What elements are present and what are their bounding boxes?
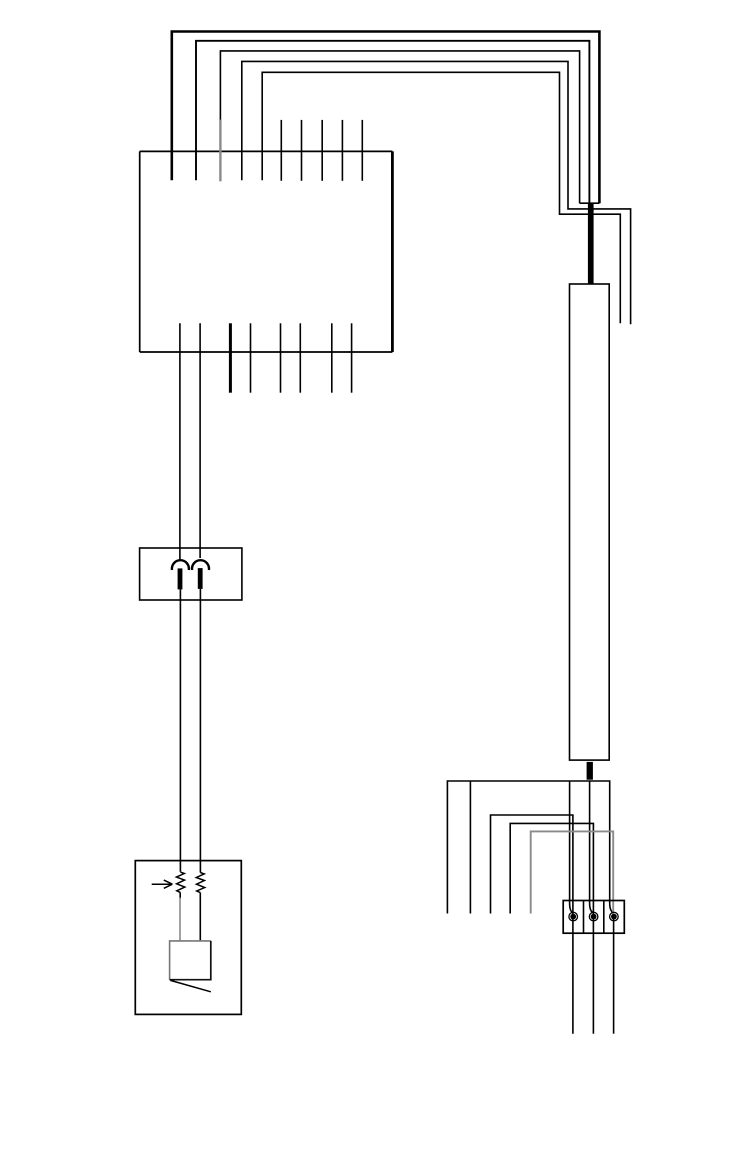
- terminal block divider 1: [583, 901, 585, 934]
- branch wire to terminal 2: [590, 781, 594, 913]
- terminal block T1 housing: [563, 901, 624, 934]
- wire W1 (pin1 to antenna, outermost): [172, 32, 600, 204]
- connector C1 socket arc pin 1: [172, 560, 189, 570]
- ring terminal 1: [569, 912, 578, 921]
- bottom pin 5: [280, 323, 282, 392]
- wire from C1 pin2 to sender unit: [199, 589, 201, 873]
- pin 8: [321, 120, 323, 181]
- control unit A1 (top-left box): [140, 151, 393, 352]
- antenna unit (tall rectangle): [570, 284, 610, 760]
- branch wire to terminal 1: [570, 781, 574, 913]
- wire below terminal 3: [613, 917, 615, 1034]
- bottom pin 7: [331, 323, 333, 392]
- wire R1 to float body (black stub): [179, 893, 181, 899]
- wire W3 gray segment at pin 3: [219, 120, 221, 182]
- wire L2 (bottom pin2 down to connector C1): [199, 323, 201, 558]
- wire from C1 pin1 to sender unit: [179, 589, 181, 871]
- variable resistor R1 zigzag: [176, 872, 184, 893]
- pin 7: [301, 120, 303, 181]
- harness wire H3 gray with stub: [531, 831, 614, 916]
- wire R1 to float body (gray): [179, 898, 181, 941]
- wire W5: [262, 72, 620, 323]
- sender unit B1 (bottom-left box): [135, 861, 241, 1015]
- splice bar (lower thick sleeve): [587, 762, 593, 780]
- wire R2 to float body: [199, 893, 201, 941]
- bottom pin 3 (thick stub): [229, 323, 232, 392]
- float body: [170, 941, 211, 980]
- harness trunk wire H0: [447, 781, 614, 914]
- bottom pin 6: [299, 323, 301, 392]
- ring terminal 3: [610, 912, 619, 921]
- bottom pin 8: [351, 323, 353, 392]
- resistor R2 zigzag: [196, 873, 204, 893]
- pin 9: [341, 120, 343, 181]
- pin 6 (top row unconnected): [280, 120, 282, 181]
- R1 adjustment arrow: [152, 883, 171, 885]
- bottom pin 4: [250, 323, 252, 392]
- splice bar (upper thick sleeve): [580, 202, 600, 204]
- harness wire H2 with stub: [510, 823, 593, 1033]
- terminal block divider 2: [603, 901, 605, 934]
- float arm lever: [170, 980, 210, 991]
- stub wire at 470: [469, 781, 471, 914]
- wire W4: [242, 61, 631, 324]
- connector C1 socket arc pin 2: [192, 560, 209, 570]
- connector C1 male pin 2: [198, 568, 203, 589]
- wire W2: [196, 41, 589, 203]
- wire L1 (bottom pin1 down to connector C1): [179, 323, 181, 559]
- connector C1 housing: [140, 548, 242, 600]
- ring terminal 2: [589, 912, 598, 921]
- harness wire H1 with stub: [491, 815, 573, 1034]
- connector C1 male pin 1: [178, 568, 183, 589]
- wire W3 (upper black part): [220, 51, 579, 203]
- pin 10: [361, 120, 363, 181]
